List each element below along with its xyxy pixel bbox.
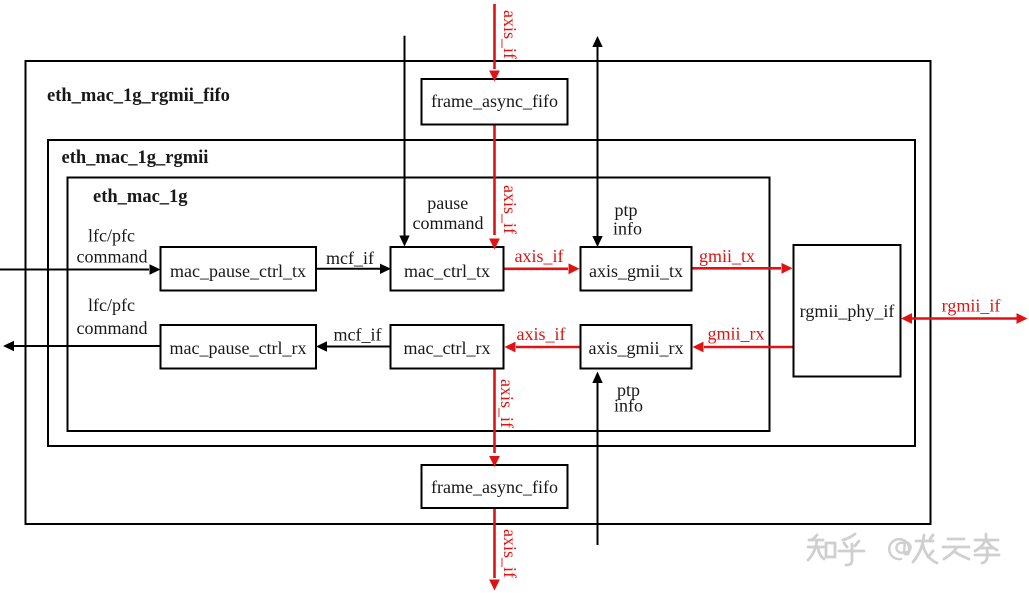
svg-text:axis_if: axis_if (500, 185, 520, 234)
svg-text:gmii_rx: gmii_rx (708, 324, 765, 344)
label lfc/pfc command (tx) (77, 226, 148, 267)
block mac_pause_ctrl_tx (161, 247, 317, 291)
watermark char at (889, 539, 910, 559)
wire axis_if red top into frame_async_fifo (493, 4, 496, 69)
wire axis_if red axis_gmii_rx to mac_ctrl_rx (505, 342, 581, 353)
svg-text:axis_if: axis_if (517, 324, 566, 344)
arrowhead axis_if into frame_async_fifo bottom (489, 456, 500, 467)
block eth_mac_1g box (68, 178, 770, 432)
svg-text:pause: pause (427, 193, 468, 213)
watermark 知乎 @龙云李 (808, 534, 999, 565)
watermark char yun (943, 539, 969, 559)
svg-text:command: command (77, 318, 148, 338)
svg-text:lfc/pfc: lfc/pfc (88, 226, 135, 246)
svg-text:axis_if: axis_if (500, 10, 520, 59)
svg-text:eth_mac_1g_rgmii: eth_mac_1g_rgmii (62, 148, 209, 168)
wire axis_if red frame_async_fifo bottom out of diagram (489, 508, 500, 591)
watermark char hu (839, 534, 864, 565)
svg-text:mcf_if: mcf_if (334, 325, 382, 345)
watermark char long (913, 535, 937, 563)
block axis_gmii_rx (581, 325, 692, 369)
svg-text:mac_pause_ctrl_tx: mac_pause_ctrl_tx (170, 261, 306, 281)
wire mcf_if rx (mac_ctrl_rx to mac_pause_ctrl_rx) (316, 341, 390, 351)
wire lfc/pfc command into mac_pause_ctrl_tx (0, 264, 161, 274)
wire pause command (black vertical into mac_ctrl_tx) (399, 36, 409, 247)
wire mcf_if tx (mac_pause_ctrl_tx to mac_ctrl_tx) (316, 264, 391, 274)
block rgmii_phy_if (794, 245, 901, 377)
wire ptp info tx (black vertical, up arrow at top, down arrow into axis_gmii_tx) (592, 36, 602, 247)
svg-text:frame_async_fifo: frame_async_fifo (431, 91, 558, 111)
svg-text:info: info (613, 219, 642, 239)
svg-text:rgmii_phy_if: rgmii_phy_if (800, 301, 895, 321)
block eth_mac_1g_rgmii box (48, 140, 915, 446)
svg-text:axis_if: axis_if (500, 529, 520, 578)
arrowhead axis_if into mac_ctrl_tx (489, 239, 500, 250)
wire axis_if red mac_ctrl_rx down to frame_async_fifo bottom (493, 369, 496, 454)
svg-text:ptp: ptp (615, 200, 638, 220)
label pause command (413, 193, 484, 233)
label ptp info (top) (613, 200, 642, 239)
svg-text:axis_gmii_rx: axis_gmii_rx (589, 338, 684, 358)
svg-text:rgmii_if: rgmii_if (942, 296, 1001, 316)
svg-text:gmii_tx: gmii_tx (699, 246, 755, 266)
wire axis_if red frame_async_fifo to mac_ctrl_tx (493, 124, 496, 235)
wire gmii_tx red axis_gmii_tx to rgmii_phy_if (692, 263, 793, 274)
svg-text:command: command (77, 247, 148, 267)
wire lfc/pfc command out of mac_pause_ctrl_rx (3, 341, 160, 351)
svg-text:eth_mac_1g_rgmii_fifo: eth_mac_1g_rgmii_fifo (47, 86, 230, 106)
block mac_pause_ctrl_rx (161, 325, 317, 369)
svg-text:mac_pause_ctrl_rx: mac_pause_ctrl_rx (170, 338, 307, 358)
svg-text:axis_gmii_tx: axis_gmii_tx (589, 261, 683, 281)
svg-text:axis_if: axis_if (497, 379, 517, 428)
svg-text:mac_ctrl_rx: mac_ctrl_rx (404, 338, 491, 358)
svg-text:info: info (614, 396, 643, 416)
svg-text:frame_async_fifo: frame_async_fifo (431, 477, 558, 497)
arrowhead ptp info into axis_gmii_rx bottom (592, 372, 602, 384)
svg-text:eth_mac_1g: eth_mac_1g (93, 187, 188, 207)
block axis_gmii_tx (581, 247, 692, 291)
block eth_mac_1g_rgmii_fifo outer box (26, 61, 931, 524)
label lfc/pfc command (rx) (77, 295, 148, 338)
label ptp info (bottom) (614, 380, 643, 416)
svg-text:lfc/pfc: lfc/pfc (88, 295, 135, 315)
wire ptp info rx (black vertical, up arrow into axis_gmii_rx bottom) (597, 380, 599, 545)
wire gmii_rx red rgmii_phy_if to axis_gmii_rx (693, 342, 794, 353)
block frame_async_fifo (top) (422, 79, 568, 125)
wire axis_if red mac_ctrl_tx to axis_gmii_tx (504, 263, 580, 274)
block mac_ctrl_tx (391, 247, 504, 291)
watermark char li (975, 534, 999, 563)
svg-text:mcf_if: mcf_if (326, 248, 374, 268)
wire rgmii_if red double arrow (901, 313, 1028, 324)
svg-text:axis_if: axis_if (515, 246, 564, 266)
block frame_async_fifo (bottom) (422, 465, 568, 508)
svg-text:mac_ctrl_tx: mac_ctrl_tx (404, 261, 490, 281)
block mac_ctrl_rx (391, 325, 504, 369)
svg-text:command: command (413, 213, 484, 233)
watermark char zhi (808, 535, 835, 560)
arrowhead axis_if into frame_async_fifo top (489, 71, 500, 82)
